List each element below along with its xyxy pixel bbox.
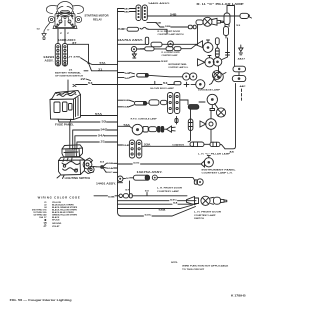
svg-text:57: 57	[60, 33, 62, 35]
svg-text:53B: 53B	[108, 196, 115, 198]
svg-text:OF IGNITION SWITCH: OF IGNITION SWITCH	[55, 75, 84, 77]
svg-text:53A 57: 53A 57	[39, 216, 47, 219]
svg-text:57: 57	[125, 190, 131, 192]
svg-text:53A: 53A	[144, 144, 151, 147]
svg-text:162: 162	[37, 28, 40, 30]
svg-text:22: 22	[81, 79, 87, 81]
svg-text:53F: 53F	[161, 61, 169, 63]
svg-text:54A: 54A	[98, 134, 106, 137]
svg-text:R.P.O. CONSOLE LAMP: R.P.O. CONSOLE LAMP	[131, 118, 158, 121]
svg-text:R. H. “C” PILLAR LAMP: R. H. “C” PILLAR LAMP	[197, 3, 245, 6]
svg-text:53F: 53F	[118, 29, 127, 31]
svg-text:FUSE PANEL: FUSE PANEL	[55, 123, 75, 126]
svg-text:14294: 14294	[43, 56, 55, 59]
svg-text:COURTESY LAMP R. H.: COURTESY LAMP R. H.	[168, 66, 188, 69]
svg-text:4427: 4427	[238, 58, 246, 61]
svg-text:13A76A ASSY.: 13A76A ASSY.	[137, 171, 164, 174]
svg-text:14401 ASSY.: 14401 ASSY.	[96, 182, 117, 185]
svg-text:54B: 54B	[156, 22, 162, 25]
svg-text:54B: 54B	[170, 13, 177, 16]
svg-text:W I R I N G C O L O R C O: W I R I N G C O L O R C O D E	[38, 197, 80, 200]
svg-text:54B: 54B	[125, 72, 131, 75]
svg-text:57: 57	[47, 30, 49, 32]
svg-text:ASSY.: ASSY.	[45, 59, 54, 62]
svg-text:13A76A ASSY.: 13A76A ASSY.	[117, 39, 144, 42]
svg-text:STARTING MOTOR: STARTING MOTOR	[85, 14, 109, 17]
svg-text:GROUND: GROUND	[52, 223, 62, 225]
svg-text:14405 ASSY.: 14405 ASSY.	[148, 2, 171, 5]
svg-text:54A: 54A	[159, 209, 167, 212]
svg-text:LH 37B: LH 37B	[67, 56, 81, 58]
svg-text:53C: 53C	[170, 199, 178, 201]
svg-text:53G: 53G	[133, 163, 139, 165]
svg-text:53: 53	[145, 191, 151, 193]
svg-text:K 1789-B: K 1789-B	[231, 294, 246, 297]
svg-text:54D: 54D	[124, 10, 130, 13]
svg-text:53A: 53A	[123, 144, 129, 147]
svg-text:50B: 50B	[107, 163, 114, 165]
svg-text:50A: 50A	[107, 167, 114, 170]
svg-text:COURTESY LAMP L.H.: COURTESY LAMP L.H.	[202, 172, 234, 175]
svg-text:37: 37	[67, 33, 69, 35]
svg-text:BATTERY TERMINAL: BATTERY TERMINAL	[55, 72, 82, 75]
svg-text:COURTESY LAMP SWITCH: COURTESY LAMP SWITCH	[158, 33, 184, 36]
svg-text:44F: 44F	[240, 85, 248, 88]
svg-text:R. H. FRONT DOOR: R. H. FRONT DOOR	[158, 31, 181, 33]
svg-text:SWITCH: SWITCH	[194, 218, 204, 220]
svg-text:53B: 53B	[165, 26, 171, 28]
svg-text:53: 53	[236, 25, 241, 27]
svg-text:INSTRUMENT PANEL: INSTRUMENT PANEL	[168, 63, 187, 66]
svg-text:VIOLET: VIOLET	[52, 226, 60, 228]
svg-text:L. H. FRONT DOOR: L. H. FRONT DOOR	[157, 188, 183, 190]
svg-text:GY: GY	[43, 226, 47, 228]
svg-text:INSTRUMENT PANEL: INSTRUMENT PANEL	[202, 168, 237, 171]
svg-text:53A: 53A	[123, 106, 129, 109]
svg-text:LIGHTING SWITCH: LIGHTING SWITCH	[65, 178, 91, 180]
svg-text:57A: 57A	[95, 113, 103, 116]
svg-text:R. H. FRONT DOOR: R. H. FRONT DOOR	[162, 52, 180, 54]
svg-text:WIRE FUNCTION NOT APPLICABLE: WIRE FUNCTION NOT APPLICABLE	[182, 265, 229, 268]
svg-text:57A: 57A	[100, 62, 106, 65]
svg-text:L. H. FRONT DOOR: L. H. FRONT DOOR	[194, 211, 222, 213]
svg-text:53C: 53C	[145, 215, 153, 217]
svg-text:53A: 53A	[124, 124, 131, 127]
svg-text:SPLICE: SPLICE	[52, 220, 60, 222]
svg-text:21: 21	[69, 70, 74, 72]
svg-text:L. H. “C” PILLAR LAMP: L. H. “C” PILLAR LAMP	[198, 153, 231, 156]
svg-text:54C: 54C	[124, 7, 130, 10]
svg-text:50C: 50C	[106, 172, 113, 174]
svg-text:COURTESY LAMP: COURTESY LAMP	[162, 54, 178, 57]
svg-text:LUGGAGE LAMP: LUGGAGE LAMP	[198, 89, 221, 92]
svg-text:13A969: 13A969	[172, 144, 185, 147]
svg-text:FIG. 56 — Cougar Interior Ligh: FIG. 56 — Cougar Interior Lighting	[10, 299, 73, 302]
svg-text:TO THIS CIRCUIT: TO THIS CIRCUIT	[182, 269, 205, 271]
svg-text:53: 53	[100, 161, 106, 163]
svg-text:54C: 54C	[125, 77, 131, 80]
svg-text:54G: 54G	[101, 128, 108, 131]
svg-text:RELAY: RELAY	[93, 19, 103, 22]
svg-text:BLACK: BLACK	[52, 216, 60, 219]
svg-text:GLOVE BOX LAMP: GLOVE BOX LAMP	[150, 87, 175, 90]
svg-text:NOTE:: NOTE:	[171, 262, 178, 264]
svg-text:COURTESY LAMP: COURTESY LAMP	[157, 190, 180, 193]
svg-text:57: 57	[126, 178, 131, 180]
svg-text:50E: 50E	[123, 100, 130, 102]
svg-text:14486 ASSY.: 14486 ASSY.	[58, 39, 76, 42]
svg-text:COURTESY LAMP: COURTESY LAMP	[194, 214, 216, 217]
